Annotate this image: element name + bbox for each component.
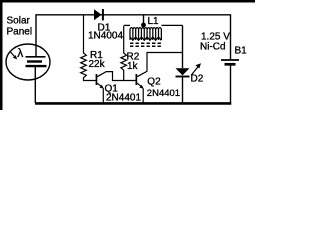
svg-text:Q2: Q2: [147, 77, 161, 88]
svg-text:λ: λ: [17, 46, 23, 60]
svg-text:D2: D2: [191, 73, 204, 84]
svg-text:22k: 22k: [89, 59, 106, 70]
svg-text:2N4401: 2N4401: [106, 93, 141, 104]
svg-text:Solar: Solar: [7, 15, 31, 26]
svg-text:1N4004: 1N4004: [88, 30, 123, 41]
svg-text:B1: B1: [235, 46, 248, 57]
svg-text:L1: L1: [148, 16, 160, 27]
svg-text:Ni-Cd: Ni-Cd: [200, 42, 226, 53]
svg-text:2N4401: 2N4401: [147, 88, 180, 99]
svg-text:Panel: Panel: [7, 27, 33, 38]
svg-text:1k: 1k: [127, 61, 139, 72]
